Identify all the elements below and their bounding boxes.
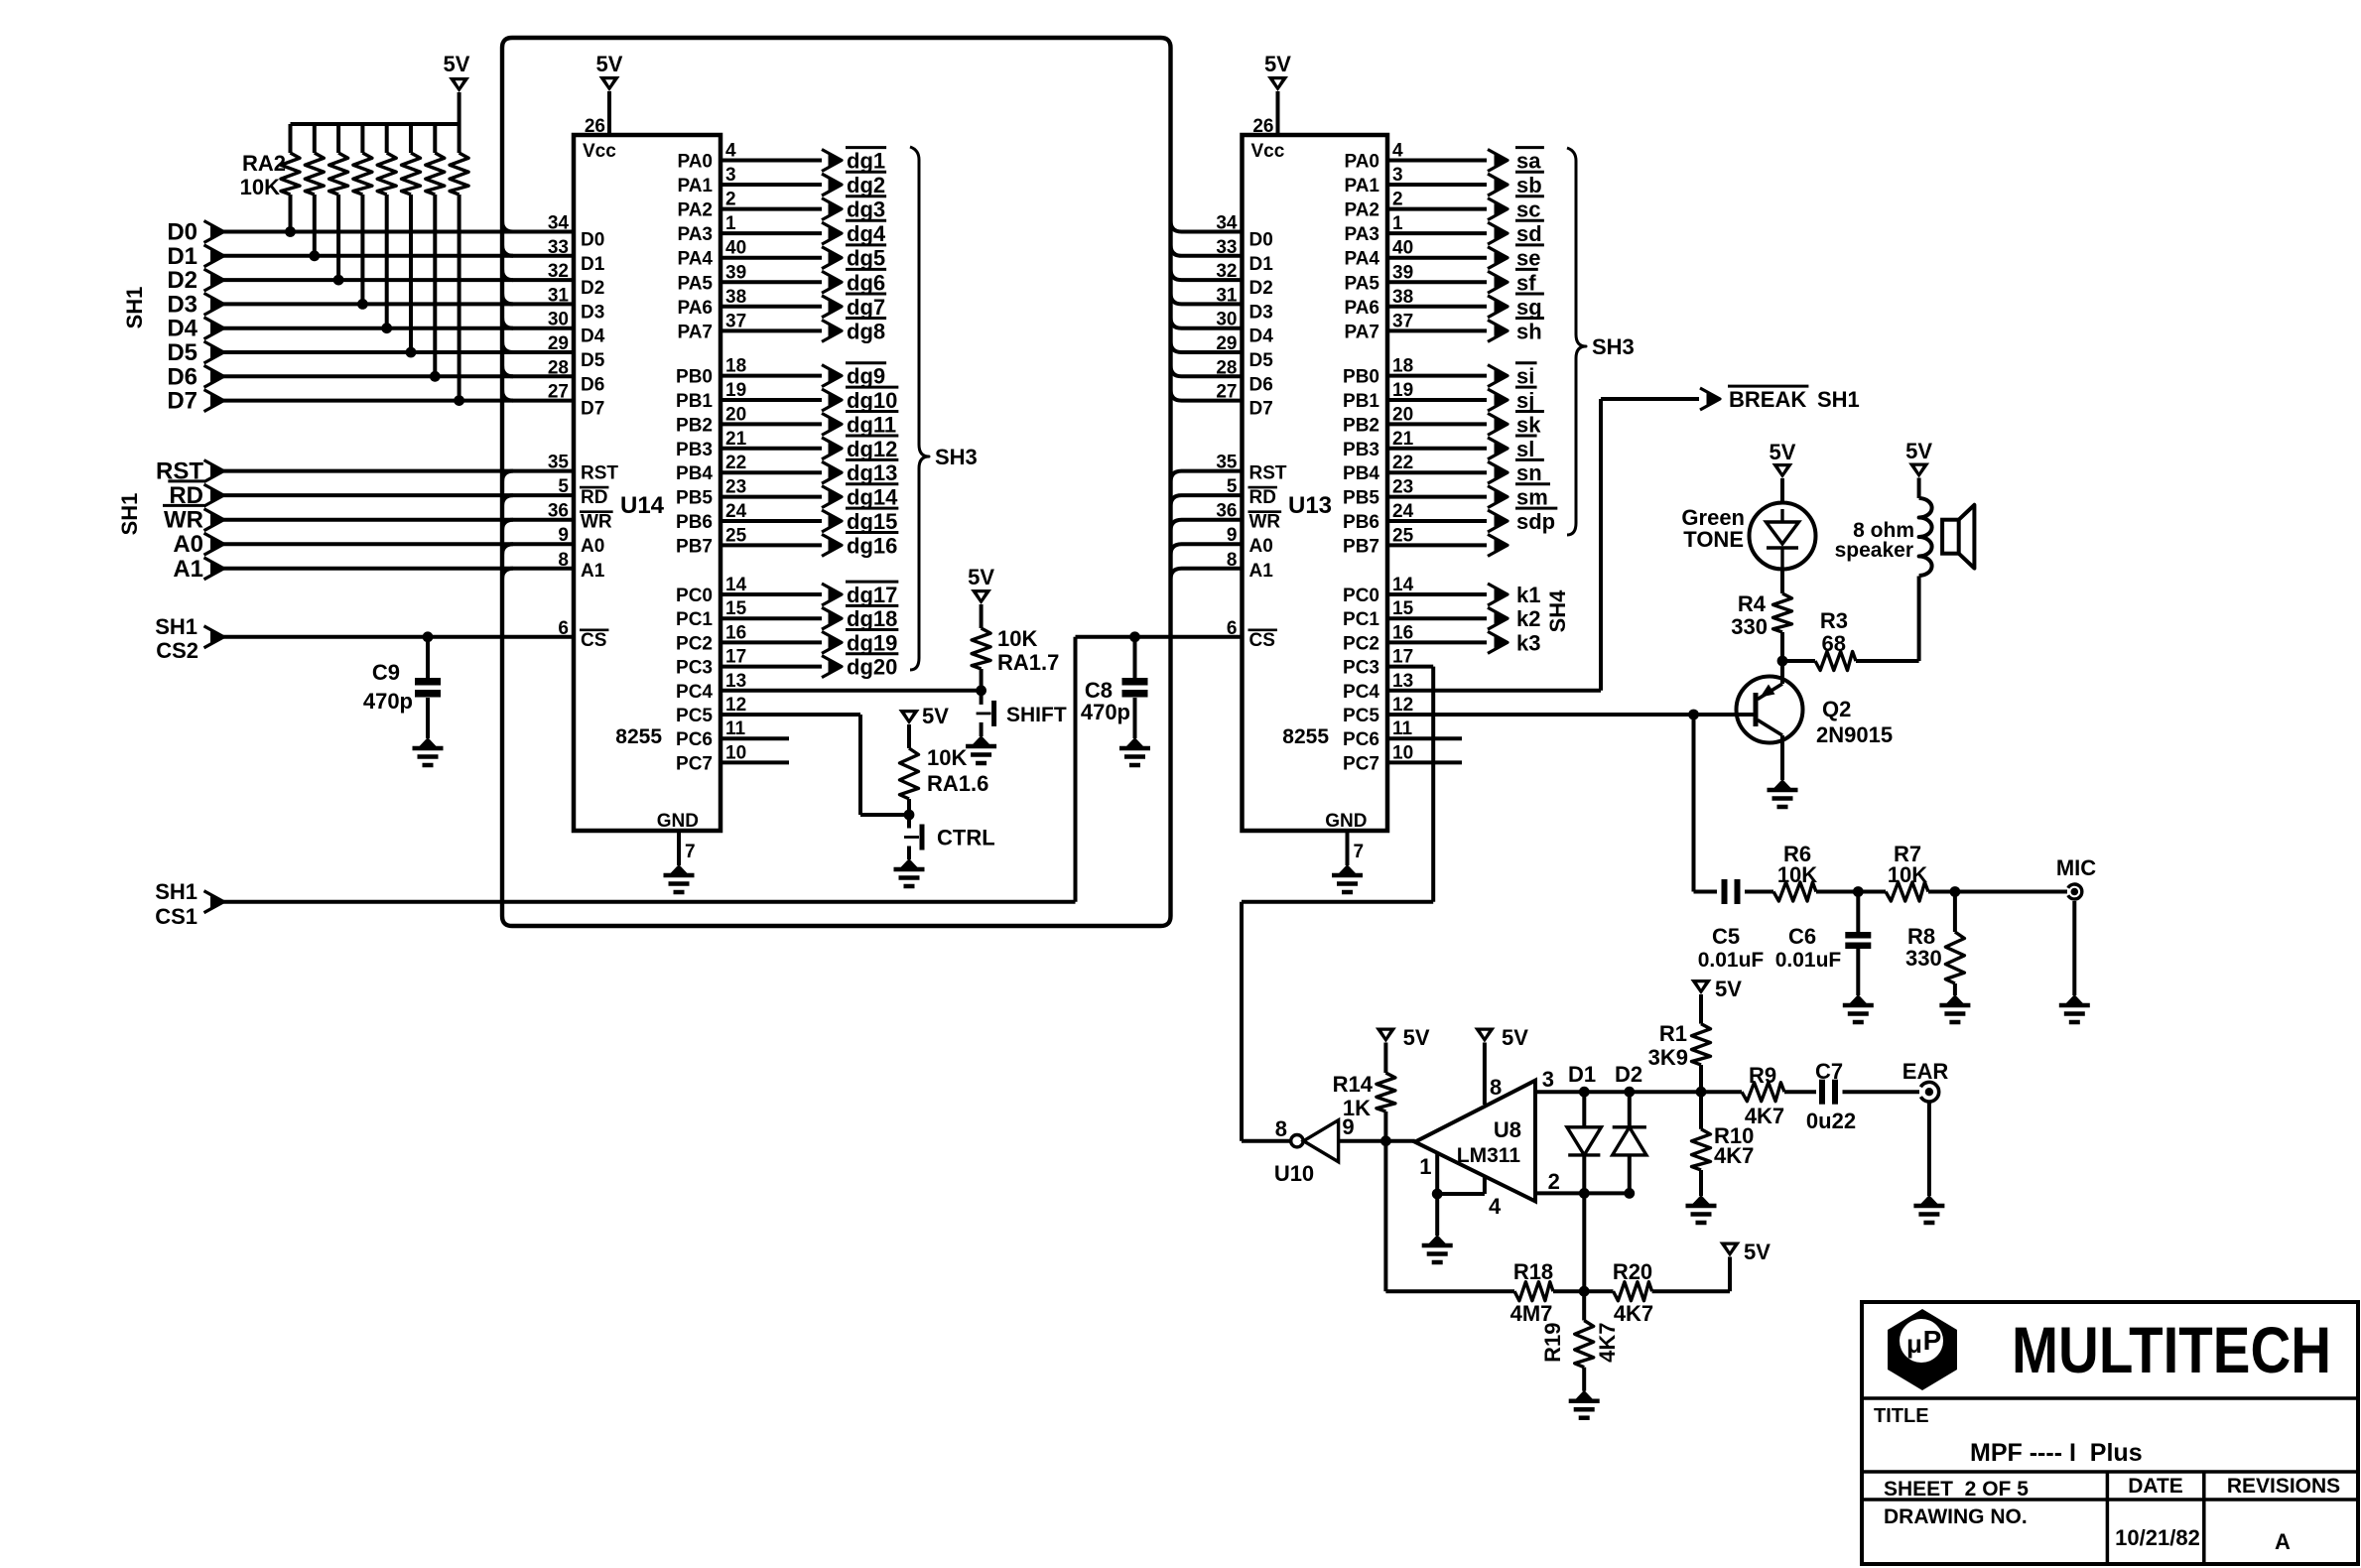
svg-text:dg20: dg20 xyxy=(847,655,897,680)
node PB7 output (unlabelled) xyxy=(1387,543,1487,547)
svg-text:330: 330 xyxy=(1905,946,1942,971)
svg-text:PA0: PA0 xyxy=(1344,152,1379,173)
svg-text:25: 25 xyxy=(1392,525,1414,546)
resistor R7 10K xyxy=(1886,882,1928,901)
logo Multitech uP hexagon xyxy=(1888,1309,1957,1390)
svg-text:36: 36 xyxy=(1216,501,1237,522)
svg-text:SH1: SH1 xyxy=(155,614,197,639)
op-amp-ish IC body U13 8255 PPI xyxy=(1243,135,1388,831)
svg-text:34: 34 xyxy=(1216,213,1238,234)
svg-text:33: 33 xyxy=(548,237,569,258)
connector EAR jack xyxy=(1843,1090,1920,1094)
svg-text:31: 31 xyxy=(548,285,570,306)
svg-text:speaker: speaker xyxy=(1835,539,1913,562)
svg-text:D7: D7 xyxy=(1249,399,1273,420)
svg-text:D2: D2 xyxy=(167,267,197,294)
svg-text:26: 26 xyxy=(585,116,605,137)
svg-text:PA5: PA5 xyxy=(677,273,713,294)
svg-text:R14: R14 xyxy=(1333,1072,1374,1097)
svg-text:RA1.6: RA1.6 xyxy=(927,771,988,796)
svg-text:MIC: MIC xyxy=(2056,855,2096,880)
power 5V (Vcc U13) xyxy=(1267,76,1288,91)
svg-text:PC1: PC1 xyxy=(676,609,713,630)
node k2 output xyxy=(1387,616,1487,620)
svg-text:PB1: PB1 xyxy=(676,391,713,412)
svg-text:2: 2 xyxy=(725,190,736,210)
svg-text:PB0: PB0 xyxy=(1343,367,1379,388)
svg-text:12: 12 xyxy=(1392,695,1413,716)
wire U13 PC3 to U10 input xyxy=(1387,665,1433,669)
svg-text:D6: D6 xyxy=(1249,374,1273,395)
resistor R4 330 xyxy=(1780,570,1784,594)
svg-text:D2: D2 xyxy=(1615,1062,1642,1087)
wire CS2 line to U14 xyxy=(223,635,574,639)
svg-text:PC3: PC3 xyxy=(676,658,713,679)
svg-text:PA3: PA3 xyxy=(1344,224,1379,245)
svg-text:12: 12 xyxy=(725,695,746,716)
node dg8 output xyxy=(721,328,822,332)
svg-text:A1: A1 xyxy=(581,561,605,582)
svg-text:7: 7 xyxy=(685,842,696,862)
svg-text:dg12: dg12 xyxy=(847,437,897,461)
ground (C6) xyxy=(1850,994,1867,1003)
svg-text:10K: 10K xyxy=(1777,862,1817,887)
svg-text:sj: sj xyxy=(1516,388,1534,413)
svg-text:C6: C6 xyxy=(1788,924,1816,949)
svg-text:8: 8 xyxy=(558,550,569,571)
svg-text:0.01uF: 0.01uF xyxy=(1775,949,1842,972)
svg-text:68: 68 xyxy=(1822,631,1846,656)
node dg17 output xyxy=(721,592,822,596)
svg-text:dg15: dg15 xyxy=(847,509,897,534)
svg-text:5V: 5V xyxy=(968,565,994,589)
svg-text:10/21/82: 10/21/82 xyxy=(2115,1525,2200,1550)
svg-text:2: 2 xyxy=(1548,1169,1560,1194)
svg-text:sm: sm xyxy=(1516,485,1548,510)
node sa output xyxy=(1387,159,1487,163)
power 5V (Vcc U14) xyxy=(599,76,620,91)
node dg7 output xyxy=(721,305,822,309)
svg-text:D7: D7 xyxy=(581,399,604,420)
svg-text:dg8: dg8 xyxy=(847,319,885,343)
svg-text:SHEET 2 OF 5: SHEET 2 OF 5 xyxy=(1884,1478,2029,1501)
node dg18 output xyxy=(721,616,822,620)
capacitor C5 0.01uF xyxy=(1722,879,1728,904)
wire R14 junction down to R18 xyxy=(1383,1141,1387,1292)
svg-text:R18: R18 xyxy=(1513,1259,1553,1284)
svg-text:GND: GND xyxy=(1325,811,1367,832)
wire U8 pin 1 to ground xyxy=(1435,1153,1439,1194)
svg-text:8255: 8255 xyxy=(1282,725,1329,748)
node C6 junction xyxy=(1853,886,1864,897)
svg-text:PA7: PA7 xyxy=(1344,322,1379,342)
node dg12 output xyxy=(721,447,822,451)
svg-text:D2: D2 xyxy=(581,278,604,299)
svg-text:PC6: PC6 xyxy=(1343,729,1379,750)
svg-text:sl: sl xyxy=(1516,437,1534,461)
svg-text:1: 1 xyxy=(725,213,736,234)
svg-text:PC4: PC4 xyxy=(1343,682,1379,703)
svg-text:27: 27 xyxy=(548,382,569,403)
svg-text:PB2: PB2 xyxy=(1343,415,1379,436)
svg-text:23: 23 xyxy=(725,477,746,498)
svg-text:9: 9 xyxy=(558,525,569,546)
svg-text:PB5: PB5 xyxy=(1343,488,1379,509)
svg-text:10K: 10K xyxy=(240,175,280,199)
resistor R6 10K xyxy=(1745,890,1773,894)
svg-text:DATE: DATE xyxy=(2128,1475,2183,1498)
svg-text:A: A xyxy=(2275,1529,2291,1554)
svg-text:PB1: PB1 xyxy=(1343,391,1379,412)
node R18/R19/R20 junction xyxy=(1579,1286,1590,1297)
node sm output xyxy=(1387,495,1487,499)
svg-text:37: 37 xyxy=(1392,311,1413,331)
svg-text:13: 13 xyxy=(1392,671,1413,692)
svg-text:PB6: PB6 xyxy=(676,512,713,533)
power 5V (R14) xyxy=(1376,1028,1396,1043)
svg-text:TONE: TONE xyxy=(1683,527,1744,552)
svg-text:21: 21 xyxy=(1392,429,1414,450)
svg-text:6: 6 xyxy=(558,618,569,639)
svg-text:5V: 5V xyxy=(444,52,470,76)
svg-text:dg13: dg13 xyxy=(847,460,897,485)
ground (R10) xyxy=(1693,1195,1710,1204)
svg-text:3: 3 xyxy=(1542,1067,1554,1092)
svg-text:dg11: dg11 xyxy=(847,412,896,437)
svg-text:D3: D3 xyxy=(581,302,604,323)
svg-text:5V: 5V xyxy=(1744,1240,1771,1264)
svg-text:A1: A1 xyxy=(1249,561,1274,582)
svg-text:PC2: PC2 xyxy=(1343,633,1379,654)
svg-text:CS2: CS2 xyxy=(156,638,198,663)
svg-text:10K: 10K xyxy=(927,745,967,770)
svg-text:CS: CS xyxy=(581,630,606,651)
svg-text:3: 3 xyxy=(1392,165,1403,186)
svg-text:DRAWING NO.: DRAWING NO. xyxy=(1884,1505,2028,1528)
svg-text:PA6: PA6 xyxy=(677,298,713,319)
svg-text:23: 23 xyxy=(1392,477,1413,498)
svg-text:PA2: PA2 xyxy=(1344,200,1379,221)
svg-text:8255: 8255 xyxy=(615,725,662,748)
ground (R19) xyxy=(1576,1390,1593,1399)
svg-text:8: 8 xyxy=(1275,1116,1287,1141)
svg-text:7: 7 xyxy=(1354,842,1365,862)
svg-text:PB5: PB5 xyxy=(676,488,713,509)
node dg6 output xyxy=(721,280,822,284)
svg-text:dg18: dg18 xyxy=(847,606,897,631)
svg-text:38: 38 xyxy=(725,287,746,308)
svg-text:15: 15 xyxy=(1392,598,1414,619)
svg-text:PA1: PA1 xyxy=(1344,176,1379,196)
svg-text:PB7: PB7 xyxy=(1343,536,1379,557)
svg-text:PB3: PB3 xyxy=(676,440,713,460)
svg-text:24: 24 xyxy=(1392,501,1414,522)
svg-text:sdp: sdp xyxy=(1516,509,1555,534)
node sg output xyxy=(1387,305,1487,309)
node dg14 output xyxy=(721,495,822,499)
svg-text:33: 33 xyxy=(1216,237,1237,258)
svg-text:11: 11 xyxy=(725,719,746,739)
node sj output xyxy=(1387,398,1487,402)
svg-text:1: 1 xyxy=(1392,213,1403,234)
svg-text:330: 330 xyxy=(1731,614,1768,639)
svg-text:16: 16 xyxy=(1392,622,1413,643)
svg-text:5V: 5V xyxy=(1905,439,1932,463)
svg-text:dg16: dg16 xyxy=(847,533,897,558)
svg-text:μ: μ xyxy=(1906,1329,1922,1359)
svg-text:D6: D6 xyxy=(581,374,604,395)
svg-text:PB2: PB2 xyxy=(676,415,713,436)
svg-text:C7: C7 xyxy=(1815,1059,1843,1084)
svg-text:CS1: CS1 xyxy=(155,904,197,929)
svg-text:5V: 5V xyxy=(1502,1025,1528,1050)
brace SH3 (U14 outputs) xyxy=(910,147,929,670)
resistor R19 4K7 xyxy=(1582,1291,1586,1320)
svg-text:si: si xyxy=(1516,364,1534,389)
svg-text:29: 29 xyxy=(548,333,569,354)
svg-text:D1: D1 xyxy=(1568,1062,1596,1087)
svg-text:24: 24 xyxy=(725,501,747,522)
svg-text:D1: D1 xyxy=(1249,254,1274,275)
svg-text:dg2: dg2 xyxy=(847,173,885,197)
resistor R20 4K7 xyxy=(1614,1282,1652,1301)
svg-text:4: 4 xyxy=(1489,1194,1502,1219)
wire U13 PC5 to Q2 base xyxy=(1387,713,1754,717)
svg-text:470p: 470p xyxy=(363,689,413,714)
svg-text:D0: D0 xyxy=(581,230,604,251)
svg-text:27: 27 xyxy=(1216,382,1237,403)
node dg19 output xyxy=(721,640,822,644)
svg-text:D0: D0 xyxy=(167,219,197,246)
svg-text:31: 31 xyxy=(1216,285,1238,306)
svg-text:PB0: PB0 xyxy=(676,367,713,388)
svg-text:6: 6 xyxy=(1227,618,1238,639)
ground (C9) xyxy=(420,737,437,746)
node R1/R9/R10 junction xyxy=(1696,1087,1707,1098)
svg-text:BREAK: BREAK xyxy=(1729,387,1806,412)
svg-text:11: 11 xyxy=(1392,719,1413,739)
wire U14 PC5 to RA1.6/CTRL xyxy=(721,713,860,717)
svg-text:19: 19 xyxy=(725,380,746,401)
svg-text:PA4: PA4 xyxy=(677,249,713,270)
svg-text:1: 1 xyxy=(1419,1154,1431,1179)
svg-text:D7: D7 xyxy=(167,388,197,415)
node dg15 output xyxy=(721,519,822,523)
svg-text:sd: sd xyxy=(1516,221,1542,246)
svg-text:2: 2 xyxy=(1392,190,1403,210)
svg-text:WR: WR xyxy=(164,507,203,534)
power 5V (RA2 rail) xyxy=(449,77,469,92)
node dg10 output xyxy=(721,398,822,402)
svg-text:LM311: LM311 xyxy=(1457,1144,1521,1167)
svg-text:PC5: PC5 xyxy=(676,706,713,726)
node dg5 output xyxy=(721,256,822,260)
svg-text:39: 39 xyxy=(1392,262,1413,283)
svg-text:5V: 5V xyxy=(1264,52,1291,76)
svg-text:D5: D5 xyxy=(581,350,605,371)
ground (R8) xyxy=(1946,994,1963,1003)
ground (Q2) xyxy=(1774,779,1791,788)
capacitor C8 470p xyxy=(1129,631,1140,642)
svg-text:R1: R1 xyxy=(1659,1021,1687,1046)
power 5V (RA1.6) xyxy=(899,710,920,724)
svg-text:40: 40 xyxy=(725,238,746,259)
svg-text:9: 9 xyxy=(1227,525,1238,546)
svg-text:5V: 5V xyxy=(1403,1025,1430,1050)
transistor Q2 2N9015 xyxy=(1737,677,1803,743)
svg-text:REVISIONS: REVISIONS xyxy=(2227,1475,2340,1498)
resistor R18 4M7 xyxy=(1514,1282,1553,1301)
svg-text:4K7: 4K7 xyxy=(1614,1301,1653,1326)
resistor R3 68 xyxy=(1782,659,1815,663)
wire U8 pin2 down to junction xyxy=(1582,1193,1586,1291)
svg-text:10K: 10K xyxy=(997,626,1037,651)
svg-text:PA1: PA1 xyxy=(677,176,713,196)
svg-text:D1: D1 xyxy=(581,254,605,275)
svg-text:35: 35 xyxy=(548,453,570,473)
svg-text:PA0: PA0 xyxy=(677,152,713,173)
svg-text:RST: RST xyxy=(1249,463,1287,484)
svg-text:R20: R20 xyxy=(1613,1259,1652,1284)
svg-text:k2: k2 xyxy=(1516,606,1540,631)
svg-text:dg6: dg6 xyxy=(847,270,885,295)
node dg13 output xyxy=(721,470,822,474)
svg-text:32: 32 xyxy=(548,261,569,282)
ground (MIC) xyxy=(2066,994,2083,1003)
wire U10 output to LM311 xyxy=(1339,1139,1415,1143)
node si output xyxy=(1387,374,1487,378)
svg-text:2N9015: 2N9015 xyxy=(1816,722,1893,747)
svg-text:dg17: dg17 xyxy=(847,583,897,607)
capacitor C6 0.01uF xyxy=(1856,892,1860,933)
wire U13 PC6/PC7 stubs xyxy=(1387,736,1462,740)
svg-text:R4: R4 xyxy=(1738,591,1767,616)
svg-text:14: 14 xyxy=(725,575,747,595)
wire CS1 line to U13 CS xyxy=(223,900,1076,904)
svg-text:R19: R19 xyxy=(1540,1323,1565,1363)
svg-text:D5: D5 xyxy=(167,339,197,366)
node sl output xyxy=(1387,447,1487,451)
svg-text:18: 18 xyxy=(725,356,746,377)
ground (U13 pin 7) xyxy=(1339,864,1356,873)
resistor RA1.7 10K xyxy=(980,604,984,628)
node sk output xyxy=(1387,422,1487,426)
svg-text:sn: sn xyxy=(1516,460,1542,485)
svg-text:EAR: EAR xyxy=(1902,1059,1949,1084)
svg-text:21: 21 xyxy=(725,429,747,450)
speaker horn 8 ohm xyxy=(1942,520,1959,554)
svg-text:A0: A0 xyxy=(173,531,203,558)
svg-text:MPF ---- I Plus: MPF ---- I Plus xyxy=(1970,1439,2143,1467)
node sc output xyxy=(1387,207,1487,211)
svg-text:SH1: SH1 xyxy=(155,879,197,904)
svg-text:30: 30 xyxy=(1216,310,1237,330)
capacitor C9 470p xyxy=(423,631,434,642)
node se output xyxy=(1387,256,1487,260)
svg-text:U13: U13 xyxy=(1288,492,1332,519)
svg-text:25: 25 xyxy=(725,525,747,546)
svg-text:36: 36 xyxy=(548,501,569,522)
node R4/R3/Q2 junction xyxy=(1777,656,1788,667)
svg-text:26: 26 xyxy=(1252,116,1273,137)
svg-text:dg1: dg1 xyxy=(847,149,885,174)
svg-text:10: 10 xyxy=(1392,742,1413,763)
inverter U10 xyxy=(1291,1135,1303,1147)
svg-text:U8: U8 xyxy=(1494,1117,1521,1142)
svg-text:A0: A0 xyxy=(581,536,604,557)
svg-text:39: 39 xyxy=(725,262,746,283)
svg-text:22: 22 xyxy=(725,453,746,473)
svg-text:4: 4 xyxy=(725,141,736,162)
op-amp U8 LM311 comparator xyxy=(1415,1081,1535,1202)
svg-text:5: 5 xyxy=(558,476,569,497)
svg-text:0.01uF: 0.01uF xyxy=(1698,949,1765,972)
svg-text:RA1.7: RA1.7 xyxy=(997,650,1059,675)
resistor R14 1K xyxy=(1383,1043,1387,1074)
svg-text:C9: C9 xyxy=(372,660,400,685)
node dg3 output xyxy=(721,207,822,211)
svg-text:D3: D3 xyxy=(1249,302,1273,323)
svg-text:PA3: PA3 xyxy=(677,224,713,245)
svg-text:5V: 5V xyxy=(922,704,949,728)
svg-text:CS: CS xyxy=(1249,630,1275,651)
ground (U14 pin 7) xyxy=(671,864,688,873)
resistor network RA2 10K (8 elements) xyxy=(291,122,459,126)
svg-text:PC0: PC0 xyxy=(676,586,713,606)
svg-text:4K7: 4K7 xyxy=(1595,1323,1620,1363)
svg-text:PC4: PC4 xyxy=(676,682,713,703)
svg-text:PA4: PA4 xyxy=(1344,249,1379,270)
svg-text:sb: sb xyxy=(1516,173,1542,197)
svg-text:5V: 5V xyxy=(1770,440,1796,464)
svg-text:D4: D4 xyxy=(167,316,197,342)
power 5V (LED) xyxy=(1772,463,1793,478)
svg-text:4K7: 4K7 xyxy=(1714,1143,1754,1168)
resistor R1 3K9 xyxy=(1699,994,1703,1024)
wire bus entry curls (U13 side) xyxy=(1171,221,1182,232)
svg-text:PC2: PC2 xyxy=(676,633,713,654)
svg-text:38: 38 xyxy=(1392,287,1413,308)
svg-text:3K9: 3K9 xyxy=(1648,1045,1688,1070)
svg-text:16: 16 xyxy=(725,622,746,643)
svg-text:WR: WR xyxy=(581,512,612,533)
svg-text:dg19: dg19 xyxy=(847,630,897,655)
ground (EAR) xyxy=(1920,1195,1937,1204)
svg-text:32: 32 xyxy=(1216,261,1237,282)
LED Green TONE xyxy=(1750,503,1816,570)
svg-text:17: 17 xyxy=(725,647,746,668)
svg-text:4: 4 xyxy=(1392,141,1403,162)
svg-text:U10: U10 xyxy=(1274,1161,1314,1186)
svg-text:15: 15 xyxy=(725,598,747,619)
svg-text:P: P xyxy=(1923,1325,1942,1356)
node dg1 output xyxy=(721,159,822,163)
svg-text:D2: D2 xyxy=(1249,278,1273,299)
svg-text:RD: RD xyxy=(581,487,607,508)
svg-text:PC7: PC7 xyxy=(1343,753,1379,774)
svg-text:PB7: PB7 xyxy=(676,536,713,557)
resistor R10 4K7 xyxy=(1699,1092,1703,1129)
svg-text:dg14: dg14 xyxy=(847,485,898,510)
wire U14 PC4 to RA1.7/SHIFT xyxy=(721,689,982,693)
svg-text:5V: 5V xyxy=(1715,977,1742,1001)
svg-text:14: 14 xyxy=(1392,575,1414,595)
node dg16 output xyxy=(721,543,822,547)
resistor R9 4K7 xyxy=(1742,1083,1784,1102)
ground (CTRL) xyxy=(901,858,918,867)
svg-text:SH1: SH1 xyxy=(122,287,147,329)
node sdp output xyxy=(1387,519,1487,523)
